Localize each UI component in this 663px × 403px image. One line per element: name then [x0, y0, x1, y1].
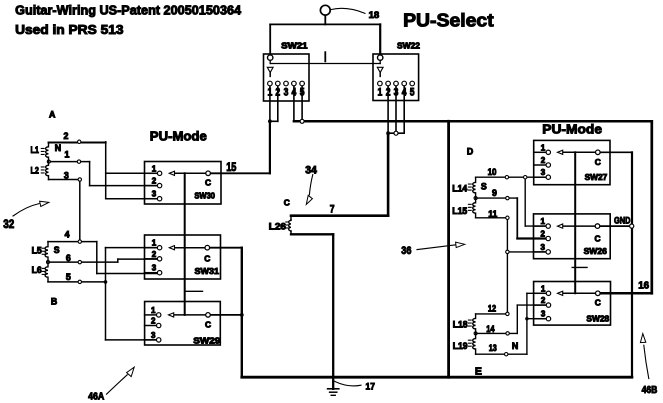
svg-text:B: B — [51, 296, 57, 306]
svg-text:3: 3 — [64, 170, 69, 180]
svg-text:5: 5 — [300, 87, 305, 99]
svg-text:14: 14 — [486, 324, 494, 334]
svg-text:N: N — [55, 143, 61, 153]
svg-text:L5: L5 — [32, 246, 42, 256]
svg-text:GND: GND — [614, 215, 631, 225]
svg-text:SW21: SW21 — [281, 40, 308, 50]
svg-text:2: 2 — [541, 230, 546, 239]
svg-text:L19: L19 — [453, 341, 468, 351]
svg-text:1: 1 — [541, 284, 546, 293]
svg-text:32: 32 — [3, 219, 14, 231]
svg-text:2: 2 — [152, 177, 157, 186]
svg-text:C: C — [205, 320, 211, 330]
svg-text:2: 2 — [151, 317, 156, 326]
svg-text:11: 11 — [488, 209, 497, 219]
svg-text:1: 1 — [268, 87, 273, 99]
svg-text:2: 2 — [152, 250, 157, 259]
svg-text:1: 1 — [541, 143, 546, 152]
svg-text:4: 4 — [65, 230, 70, 240]
svg-text:PU-Mode: PU-Mode — [150, 128, 207, 143]
svg-text:2: 2 — [275, 87, 280, 99]
svg-text:1: 1 — [152, 164, 157, 173]
svg-text:9: 9 — [492, 188, 497, 198]
svg-text:PU-Select: PU-Select — [403, 11, 494, 31]
svg-text:1: 1 — [152, 239, 157, 248]
svg-text:S: S — [54, 245, 60, 255]
svg-text:10: 10 — [488, 167, 497, 177]
svg-text:3: 3 — [541, 168, 546, 177]
svg-text:1: 1 — [65, 149, 70, 159]
svg-text:2: 2 — [64, 131, 69, 141]
svg-text:SW31: SW31 — [195, 266, 220, 276]
svg-text:L15: L15 — [452, 206, 467, 216]
svg-text:Used in PRS 513: Used in PRS 513 — [15, 22, 123, 37]
svg-text:4: 4 — [402, 87, 407, 99]
svg-text:L6: L6 — [32, 265, 42, 275]
svg-text:SW28: SW28 — [586, 314, 609, 324]
svg-text:SW29: SW29 — [193, 336, 220, 346]
svg-text:46B: 46B — [642, 384, 658, 396]
svg-text:5: 5 — [66, 272, 71, 282]
svg-text:3: 3 — [394, 87, 399, 99]
svg-text:L26: L26 — [269, 222, 286, 232]
svg-text:SW27: SW27 — [585, 172, 608, 182]
svg-text:C: C — [204, 253, 210, 263]
svg-text:C: C — [595, 297, 601, 307]
svg-text:36: 36 — [401, 245, 411, 257]
svg-text:N: N — [512, 341, 518, 351]
svg-text:1: 1 — [541, 217, 546, 226]
svg-text:18: 18 — [369, 10, 380, 20]
svg-text:3: 3 — [541, 310, 546, 319]
svg-text:C: C — [594, 234, 600, 244]
svg-text:C: C — [284, 198, 290, 208]
svg-text:L2: L2 — [31, 166, 39, 176]
svg-text:2: 2 — [541, 156, 546, 165]
svg-text:3: 3 — [152, 264, 157, 273]
svg-text:L1: L1 — [31, 145, 39, 155]
svg-text:12: 12 — [488, 303, 496, 313]
svg-text:34: 34 — [305, 165, 317, 177]
svg-text:L18: L18 — [453, 320, 468, 330]
svg-text:1: 1 — [151, 306, 156, 315]
svg-text:3: 3 — [152, 190, 157, 199]
svg-text:2: 2 — [541, 296, 546, 305]
svg-text:3: 3 — [151, 331, 156, 340]
svg-text:4: 4 — [292, 87, 297, 99]
svg-text:2: 2 — [386, 87, 391, 99]
svg-text:1: 1 — [378, 87, 383, 99]
svg-text:13: 13 — [489, 343, 497, 353]
svg-text:L14: L14 — [452, 183, 467, 193]
svg-text:3: 3 — [284, 87, 289, 99]
svg-text:16: 16 — [638, 281, 649, 292]
svg-text:E: E — [475, 366, 482, 378]
svg-text:SW26: SW26 — [584, 246, 608, 256]
svg-text:A: A — [49, 110, 56, 120]
svg-text:6: 6 — [66, 253, 71, 263]
svg-text:SW30: SW30 — [194, 191, 215, 201]
svg-text:S: S — [481, 181, 487, 191]
svg-text:15: 15 — [226, 162, 237, 174]
svg-text:C: C — [205, 178, 211, 188]
svg-text:D: D — [467, 146, 473, 156]
svg-text:PU-Mode: PU-Mode — [542, 122, 602, 137]
svg-text:3: 3 — [541, 243, 546, 252]
svg-text:46A: 46A — [88, 391, 105, 403]
svg-text:Guitar-Wiring US-Patent 200501: Guitar-Wiring US-Patent 20050150364 — [15, 2, 242, 17]
svg-text:7: 7 — [330, 204, 335, 216]
svg-text:17: 17 — [366, 382, 375, 392]
svg-text:SW22: SW22 — [397, 41, 420, 51]
svg-text:5: 5 — [410, 87, 415, 99]
svg-text:C: C — [595, 157, 601, 167]
